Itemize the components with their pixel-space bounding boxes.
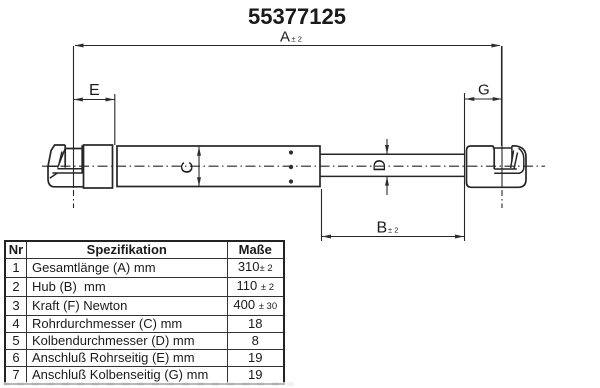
piston detail dots <box>289 150 293 154</box>
svg-text:55377125: 55377125 <box>248 4 346 29</box>
cylinder tube <box>117 146 320 187</box>
right fitting centerline vertical <box>501 46 503 188</box>
right fitting inner curl <box>519 148 524 173</box>
svg-text:D: D <box>370 159 389 171</box>
svg-text:E: E <box>89 82 100 99</box>
dimension A right extension line <box>501 46 503 146</box>
right fitting socket box left edge <box>493 148 495 169</box>
dimension D bottom arrow <box>386 177 388 195</box>
left eyelet centerline vertical <box>73 46 75 188</box>
left end fitting outer body <box>48 145 83 187</box>
left fitting lip <box>48 166 83 178</box>
svg-text:± 2: ± 2 <box>388 225 398 234</box>
right fitting socket notch <box>493 146 512 161</box>
piston rod bottom line <box>320 175 465 177</box>
dimension C arrow <box>198 147 200 187</box>
specification table <box>4 240 285 385</box>
piston rod top line <box>320 153 465 155</box>
svg-text:G: G <box>478 82 490 99</box>
left fitting ball pin <box>58 149 66 168</box>
dimension G line <box>465 98 502 100</box>
dimension B line <box>322 236 465 238</box>
right fitting pin diagonals <box>511 151 518 170</box>
dimension E right extension line <box>114 94 116 145</box>
svg-text:C: C <box>177 161 196 173</box>
dimension G left extension line (continues down to B) <box>464 93 466 241</box>
svg-text:± 2: ± 2 <box>292 34 302 43</box>
dimension B left extension line <box>321 189 323 241</box>
right end fitting outer body <box>467 146 527 188</box>
right fitting lip <box>494 169 520 173</box>
dimension A line <box>75 45 500 47</box>
dimension E line <box>74 99 115 101</box>
svg-text:A: A <box>280 28 290 45</box>
dimension D top arrow <box>386 139 388 154</box>
svg-text:B: B <box>377 220 388 237</box>
cylinder connector block <box>84 145 113 188</box>
left fitting socket box <box>65 145 82 173</box>
horizontal centerline <box>42 165 545 167</box>
faint scan artifact strip below table <box>2 382 294 386</box>
